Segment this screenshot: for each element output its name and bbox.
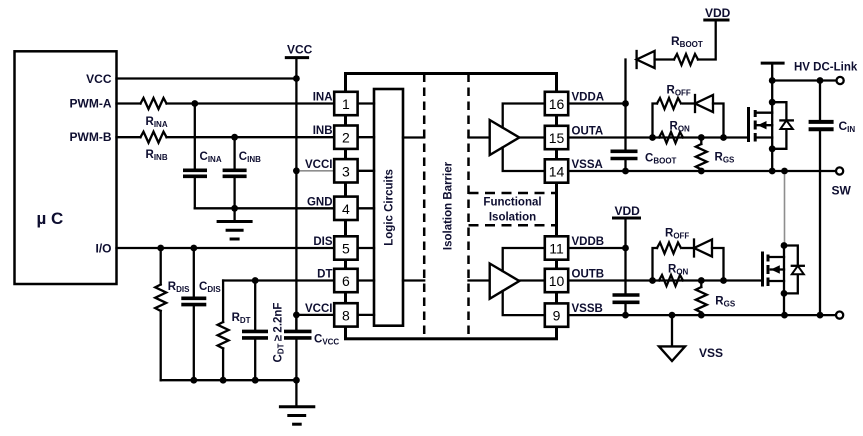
node junction VCCI pin8 tap bbox=[293, 312, 300, 319]
wire INA from resistor to pin 1 bbox=[167, 102, 335, 104]
svg-text:8: 8 bbox=[342, 307, 350, 323]
wire bracket B to pin 9 bbox=[503, 291, 545, 315]
wire VCC vertical rail bbox=[295, 58, 297, 332]
svg-text:4: 4 bbox=[342, 201, 350, 217]
svg-text:VCCI: VCCI bbox=[305, 159, 332, 171]
resistor ROFF B bbox=[657, 243, 681, 254]
node junction RGS bottom A bbox=[698, 168, 705, 175]
node junction body diode B bottom bbox=[781, 290, 788, 297]
svg-text:Functional: Functional bbox=[483, 197, 541, 209]
node junction RGS top A bbox=[698, 134, 705, 141]
terminal low side bbox=[836, 312, 843, 319]
node junction CDIS bbox=[190, 245, 197, 252]
svg-text:Logic Circuits: Logic Circuits bbox=[384, 169, 396, 246]
node junction CIN bottom bbox=[817, 312, 824, 319]
functional isolation dashed box bbox=[469, 192, 557, 195]
node junction CVCC bottom bbox=[293, 377, 300, 384]
node junction RGS bottom B bbox=[698, 312, 705, 319]
node junction VDDB bbox=[622, 245, 629, 252]
ground symbol main bbox=[295, 380, 297, 407]
svg-text:Isolation: Isolation bbox=[489, 212, 536, 224]
node junction MOSFET A source bbox=[769, 168, 776, 175]
wire OUTB from pin 10 bbox=[568, 279, 762, 281]
svg-text:VDD: VDD bbox=[705, 6, 731, 20]
wire pin 4 stub to logic bbox=[358, 207, 374, 209]
pin box 9 bbox=[545, 303, 568, 326]
microcontroller box uC bbox=[15, 51, 117, 284]
node junction GND / CINB bbox=[231, 205, 238, 212]
pin box 5 bbox=[334, 236, 357, 259]
svg-text:PWM-B: PWM-B bbox=[70, 130, 112, 144]
wire diode to RBOOT bbox=[655, 58, 674, 60]
svg-text:VDDB: VDDB bbox=[572, 236, 605, 248]
transistor Q1 high-side MOSFET bbox=[747, 107, 750, 142]
wire I/O from uC to pin 5 DIS bbox=[117, 247, 335, 249]
wire pin 5 stub to logic bbox=[358, 247, 374, 249]
resistor RDIS bbox=[160, 248, 162, 285]
isolation barrier dashed line right bbox=[467, 74, 470, 339]
node junction CDIS bottom bbox=[190, 377, 197, 384]
node junction body diode A top bbox=[769, 99, 776, 106]
svg-text:OUTA: OUTA bbox=[572, 126, 604, 138]
wire ROFF branch B bbox=[653, 248, 658, 281]
capacitor CDIS bbox=[193, 248, 195, 298]
pin box 11 bbox=[545, 236, 568, 259]
wire pin 6 stub to logic bbox=[358, 279, 374, 281]
svg-text:5: 5 bbox=[342, 241, 350, 257]
isolation barrier dashed line left bbox=[423, 74, 426, 339]
wire logic to barrier channel B bbox=[403, 279, 424, 281]
resistor RINA bbox=[141, 98, 167, 109]
wire HV DC-Link bbox=[772, 79, 836, 81]
svg-text:VSS: VSS bbox=[699, 346, 723, 360]
svg-text:DT: DT bbox=[317, 269, 332, 281]
wire PWM-B to resistor RINB bbox=[117, 136, 141, 138]
wire bracket A to pin 16 bbox=[503, 104, 545, 128]
node junction VCC rail bbox=[293, 75, 300, 82]
svg-text:9: 9 bbox=[553, 308, 561, 324]
pin box 3 bbox=[334, 159, 357, 182]
node junction CDT bottom bbox=[252, 377, 259, 384]
svg-text:15: 15 bbox=[549, 130, 565, 146]
wire OUTA from pin 15 bbox=[568, 136, 748, 138]
svg-text:VCCI: VCCI bbox=[305, 303, 332, 315]
resistor RGS A bbox=[696, 144, 707, 169]
svg-text:GND: GND bbox=[307, 196, 333, 208]
wire INB from resistor to pin 2 bbox=[167, 136, 335, 138]
VDD supply B bbox=[612, 217, 641, 220]
node junction ROFF right A bbox=[720, 134, 727, 141]
node junction SW to low drain bbox=[781, 168, 788, 175]
svg-text:6: 6 bbox=[342, 273, 350, 289]
capacitor CDT bbox=[254, 281, 256, 332]
wire VSSB rail bbox=[568, 314, 836, 316]
wire pin 1 stub to logic bbox=[358, 102, 374, 104]
node junction CVDD bottom bbox=[622, 312, 629, 319]
svg-text:DIS: DIS bbox=[313, 236, 333, 248]
capacitor CVCC bbox=[295, 315, 297, 332]
svg-text:2: 2 bbox=[342, 130, 350, 146]
wire VCC from uC to VCC rail bbox=[117, 77, 297, 79]
op-amp buffer B bbox=[490, 264, 520, 299]
capacitor CINA bbox=[194, 104, 196, 171]
wire buffer B out to pin 10 bbox=[519, 279, 544, 281]
node junction RDIS bbox=[157, 245, 164, 252]
VDD supply A bbox=[703, 19, 729, 22]
wire bracket A to pin 14 bbox=[503, 148, 545, 172]
svg-text:16: 16 bbox=[549, 96, 565, 112]
wire VDD B down bbox=[624, 218, 626, 295]
wire PWM-A to resistor RINA bbox=[117, 102, 141, 104]
capacitor CBOOT bbox=[611, 150, 638, 154]
op-amp buffer A bbox=[490, 120, 520, 155]
resistor RBOOT bbox=[674, 54, 698, 65]
pin box 1 bbox=[334, 92, 357, 115]
pin box 8 bbox=[334, 303, 357, 326]
capacitor CIN bbox=[819, 81, 821, 122]
logic circuits box bbox=[374, 89, 403, 326]
wire gray SW to low-side drain bbox=[784, 175, 786, 246]
svg-text:VSSA: VSSA bbox=[572, 159, 603, 171]
wire VDDB from pin 11 bbox=[568, 247, 625, 249]
pin box 16 bbox=[545, 92, 568, 115]
resistor ROFF A bbox=[657, 98, 681, 109]
svg-text:14: 14 bbox=[549, 164, 565, 180]
svg-text:10: 10 bbox=[549, 273, 565, 289]
node junction RGS top B bbox=[698, 277, 705, 284]
pin box 15 bbox=[545, 126, 568, 149]
wire pin 3 stub to logic bbox=[358, 170, 374, 172]
VCC supply symbol bbox=[285, 56, 309, 59]
terminal HV DC-Link bbox=[837, 77, 844, 84]
pin box 6 bbox=[334, 269, 357, 292]
diode body A bbox=[772, 102, 786, 120]
svg-text:HV DC-Link: HV DC-Link bbox=[794, 62, 858, 74]
svg-text:Isolation Barrier: Isolation Barrier bbox=[443, 161, 455, 250]
node junction body diode B top bbox=[781, 242, 788, 249]
node junction CBOOT bottom bbox=[622, 168, 629, 175]
node junction RDT bottom bbox=[220, 377, 227, 384]
wire barrier to buffer A bbox=[469, 136, 490, 138]
wire VCCI to pin 8 bbox=[296, 314, 334, 316]
wire GND row to pin 4 bbox=[195, 207, 334, 209]
IC outline bbox=[346, 74, 557, 339]
resistor RON A bbox=[659, 132, 683, 143]
svg-text:VCC: VCC bbox=[86, 72, 112, 86]
capacitor CINB bbox=[233, 137, 235, 170]
diode bootstrap bbox=[635, 51, 637, 68]
resistor RON B bbox=[659, 275, 683, 286]
wire logic to barrier channel A bbox=[403, 136, 424, 138]
node junction ROFF left B bbox=[649, 277, 656, 284]
diode body B bbox=[784, 246, 798, 266]
wire RBOOT to VDD bbox=[698, 20, 716, 60]
node junction MOSFET B source bbox=[781, 312, 788, 319]
wire bracket B to pin 11 bbox=[503, 248, 545, 271]
node junction body diode A bottom bbox=[769, 145, 776, 152]
svg-text:3: 3 bbox=[342, 163, 350, 179]
wire barrier to buffer B bbox=[469, 279, 490, 281]
pin box 4 bbox=[334, 197, 357, 220]
wire buffer A out to pin 15 bbox=[519, 136, 544, 138]
wire pin 2 stub to logic bbox=[358, 136, 374, 138]
svg-text:VDDA: VDDA bbox=[572, 92, 605, 104]
resistor RGS B bbox=[700, 281, 702, 288]
svg-text:INA: INA bbox=[313, 92, 333, 104]
wire pin 8 stub to logic bbox=[358, 314, 374, 316]
resistor RINB bbox=[141, 132, 167, 143]
pin box 14 bbox=[545, 159, 568, 182]
node junction VSS ground bbox=[669, 312, 676, 319]
capacitor CVDD B bbox=[613, 293, 640, 297]
node junction ROFF right B bbox=[720, 277, 727, 284]
svg-text:1: 1 bbox=[342, 96, 350, 112]
svg-text:PWM-A: PWM-A bbox=[70, 97, 112, 111]
HV DC-Link rail bar bbox=[761, 62, 785, 65]
wire VDDA from pin 16 bbox=[568, 102, 625, 104]
node junction INA / CINA bbox=[191, 100, 198, 107]
node junction CDT bbox=[252, 277, 259, 284]
svg-text:VDD: VDD bbox=[615, 204, 641, 218]
ground VSS symbol bbox=[671, 315, 673, 346]
node junction drain A top bbox=[769, 77, 776, 84]
svg-text:11: 11 bbox=[549, 241, 564, 257]
wire DT row to pin 6 bbox=[223, 279, 334, 281]
ground symbol under input caps bbox=[233, 208, 235, 221]
terminal SW bbox=[836, 167, 843, 174]
resistor RDT bbox=[222, 281, 224, 323]
wire VCCI gray to pin 3 bbox=[300, 170, 335, 172]
node junction VCCI pin3 tap bbox=[293, 167, 300, 174]
node junction INB / CINB bbox=[231, 134, 238, 141]
pin box 2 bbox=[334, 126, 357, 149]
pin box 10 bbox=[545, 269, 568, 292]
wire ROFF branch A bbox=[653, 104, 658, 138]
wire bottom ground bus bbox=[161, 379, 297, 381]
svg-text:µ C: µ C bbox=[37, 209, 64, 228]
svg-text:INB: INB bbox=[313, 125, 333, 137]
svg-text:VCC: VCC bbox=[287, 43, 313, 57]
transistor Q2 low-side MOSFET bbox=[761, 252, 764, 287]
svg-text:SW: SW bbox=[832, 184, 852, 198]
wire VSSA SW rail bbox=[568, 170, 836, 172]
svg-text:VSSB: VSSB bbox=[572, 303, 603, 315]
svg-text:OUTB: OUTB bbox=[572, 269, 605, 281]
svg-text:I/O: I/O bbox=[95, 241, 111, 255]
node junction VDDA bbox=[622, 100, 629, 107]
diode ROFF A bbox=[683, 102, 695, 104]
diode ROFF B bbox=[683, 247, 694, 249]
node junction ROFF left A bbox=[649, 134, 656, 141]
wire bootstrap vertical bbox=[624, 60, 626, 152]
node junction CIN top bbox=[817, 77, 824, 84]
